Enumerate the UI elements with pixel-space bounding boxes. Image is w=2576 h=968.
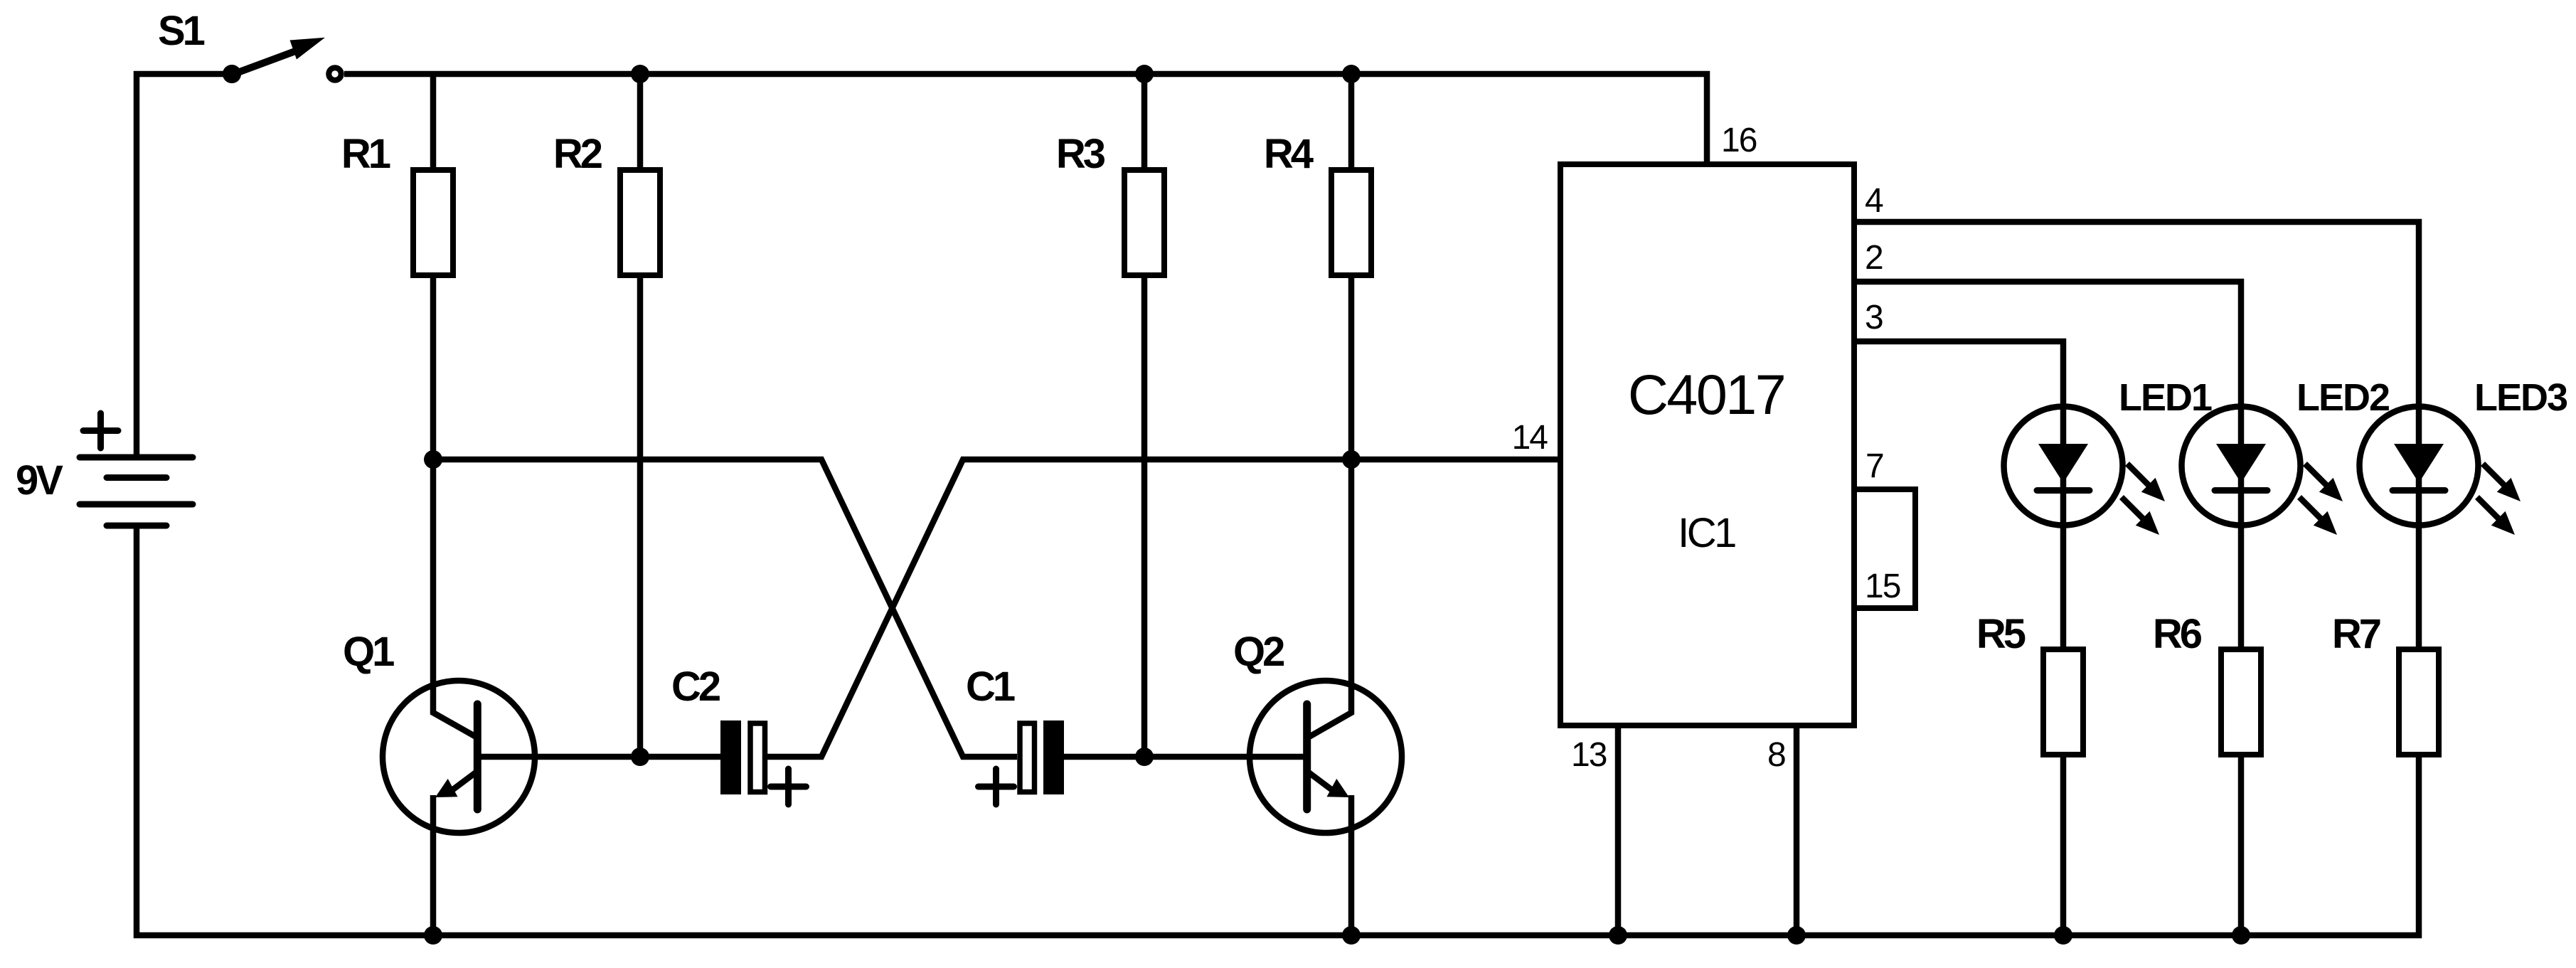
svg-text:9V: 9V: [16, 457, 63, 504]
svg-text:14: 14: [1512, 419, 1548, 457]
resistor R2: [553, 131, 660, 275]
svg-text:7: 7: [1866, 447, 1883, 485]
junction switch pole: [223, 65, 241, 83]
wire R4 top: [1348, 74, 1355, 170]
wire R6 to ground rail: [2238, 755, 2245, 935]
svg-text:R3: R3: [1056, 131, 1105, 177]
svg-text:Q2: Q2: [1233, 629, 1284, 675]
svg-text:R6: R6: [2153, 611, 2202, 657]
svg-text:S1: S1: [158, 8, 205, 54]
wire Q1 emitter to ground rail: [430, 795, 437, 935]
svg-text:C1: C1: [966, 664, 1015, 710]
svg-text:3: 3: [1865, 299, 1883, 336]
svg-text:C4017: C4017: [1628, 363, 1784, 426]
resistor R3: [1056, 131, 1164, 275]
LED2: [2182, 376, 2390, 535]
svg-text:Q1: Q1: [343, 629, 394, 675]
resistor R1: [341, 131, 453, 275]
resistor R6: [2153, 611, 2261, 755]
battery BT1 9V: [16, 413, 193, 526]
IC1 C4017: [1560, 164, 1854, 725]
wire C2 right to Q2 collector node and IC pin 14 (lower cross link): [767, 459, 1560, 757]
wire R2 top: [637, 74, 644, 170]
svg-text:IC1: IC1: [1678, 510, 1735, 556]
svg-text:LED3: LED3: [2474, 376, 2567, 419]
transistor Q1: [343, 629, 535, 833]
transistor Q2: [1233, 629, 1402, 833]
junction Q1 collector node: [424, 450, 442, 469]
junction R2 top rail: [631, 65, 649, 83]
wire R2 bottom to Q1 base node: [637, 275, 644, 757]
wire pin 7 to pin 15 loop: [1854, 489, 1915, 608]
capacitor C2: [671, 664, 807, 804]
capacitor C1: [966, 664, 1064, 804]
svg-text:2: 2: [1865, 239, 1883, 277]
svg-text:4: 4: [1865, 182, 1883, 220]
LED3: [2360, 376, 2568, 535]
junction Q2 collector / pin 14 node: [1342, 450, 1361, 469]
svg-text:R7: R7: [2332, 611, 2380, 657]
resistor R4: [1264, 131, 1371, 275]
wire R1 bottom to Q1 collector: [433, 275, 477, 738]
wire pin 4 to LED3: [1854, 222, 2419, 649]
svg-text:R2: R2: [553, 131, 602, 177]
junction pin 13 ground: [1609, 926, 1627, 945]
wire Q2 emitter to ground rail: [1348, 795, 1355, 935]
wire battery positive to switch: [137, 74, 232, 457]
svg-text:16: 16: [1721, 122, 1757, 159]
wire pin 2 to LED2: [1854, 282, 2241, 649]
svg-text:15: 15: [1865, 568, 1900, 605]
svg-text:C2: C2: [671, 664, 720, 710]
junction R6 ground: [2232, 926, 2250, 945]
svg-text:LED2: LED2: [2296, 376, 2389, 419]
switch S1: [158, 8, 341, 83]
wire R4 bottom to Q2 collector: [1308, 275, 1351, 738]
wire pin 3 to LED1: [1854, 341, 2063, 649]
wire battery negative to ground rail: [137, 526, 2419, 935]
svg-text:13: 13: [1571, 736, 1607, 774]
wire Q1 collector node to C1 left (upper cross link): [433, 459, 1017, 757]
LED1: [2004, 376, 2213, 535]
wire R3 bottom to Q2 base node: [1141, 275, 1148, 757]
resistor R5: [1976, 611, 2083, 755]
wire pin 13 to ground rail: [1615, 725, 1622, 935]
svg-text:R5: R5: [1976, 611, 2026, 657]
wire R5 to ground rail: [2060, 755, 2067, 935]
resistor R7: [2332, 611, 2439, 755]
svg-text:8: 8: [1767, 736, 1785, 774]
wire Q1 base to C2 left: [477, 754, 720, 760]
wire top supply rail: [344, 74, 1707, 164]
junction Q2 base node: [1135, 748, 1154, 766]
junction R4 top rail: [1342, 65, 1361, 83]
junction pin 8 ground: [1787, 926, 1806, 945]
junction Q1 base node: [631, 748, 649, 766]
wire pin 8 to ground rail: [1794, 725, 1800, 935]
svg-text:R1: R1: [341, 131, 390, 177]
svg-text:LED1: LED1: [2119, 376, 2212, 419]
junction R5 ground: [2054, 926, 2072, 945]
wire R3 top: [1141, 74, 1148, 170]
wire C1 right to Q2 base: [1064, 754, 1308, 760]
junction Q1 emitter ground: [424, 926, 442, 945]
svg-text:R4: R4: [1264, 131, 1314, 177]
wire R1 top: [430, 74, 437, 170]
junction Q2 emitter ground: [1342, 926, 1361, 945]
junction R3 top rail: [1135, 65, 1154, 83]
